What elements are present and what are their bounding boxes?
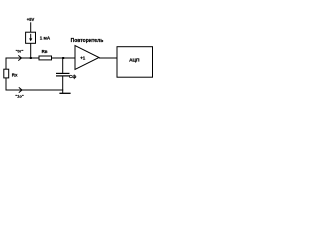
wire +5V to current source <box>30 22 32 32</box>
terminal arrow bottom <box>19 87 22 92</box>
wire node B down to capacitor <box>62 58 64 73</box>
svg-text:Rх: Rх <box>12 73 18 78</box>
op-amp follower U1 <box>75 46 99 70</box>
resistor Rв <box>39 56 52 60</box>
ADC box АЦП <box>117 47 153 77</box>
svg-text:"1о": "1о" <box>15 94 24 99</box>
svg-text:+1: +1 <box>80 55 86 60</box>
junction node A <box>30 57 32 59</box>
svg-text:+5V: +5V <box>27 17 35 22</box>
svg-text:"0г": "0г" <box>16 49 24 54</box>
current source I1 <box>26 32 36 43</box>
terminal arrow top <box>18 55 21 60</box>
wire main horizontal (left segment) <box>6 57 39 59</box>
wire capacitor to ground <box>62 77 64 94</box>
capacitor Сф bottom plate <box>56 75 70 77</box>
resistor Rх <box>4 69 9 78</box>
wire left vertical upper <box>5 58 7 70</box>
wire bottom horizontal <box>6 89 63 91</box>
ground <box>59 92 70 94</box>
junction node B <box>62 57 64 59</box>
svg-text:Повторитель: Повторитель <box>71 38 104 44</box>
wire op-amp to ADC <box>99 57 117 59</box>
svg-text:Rв: Rв <box>42 49 48 54</box>
capacitor Сф top plate <box>56 72 70 74</box>
svg-text:Сф: Сф <box>69 73 76 79</box>
wire resistor to op-amp <box>52 57 76 59</box>
svg-text:АЦП: АЦП <box>129 57 140 63</box>
wire left vertical lower <box>5 78 7 91</box>
svg-text:1 мА: 1 мА <box>40 36 51 41</box>
wire current source to node A <box>30 43 32 58</box>
